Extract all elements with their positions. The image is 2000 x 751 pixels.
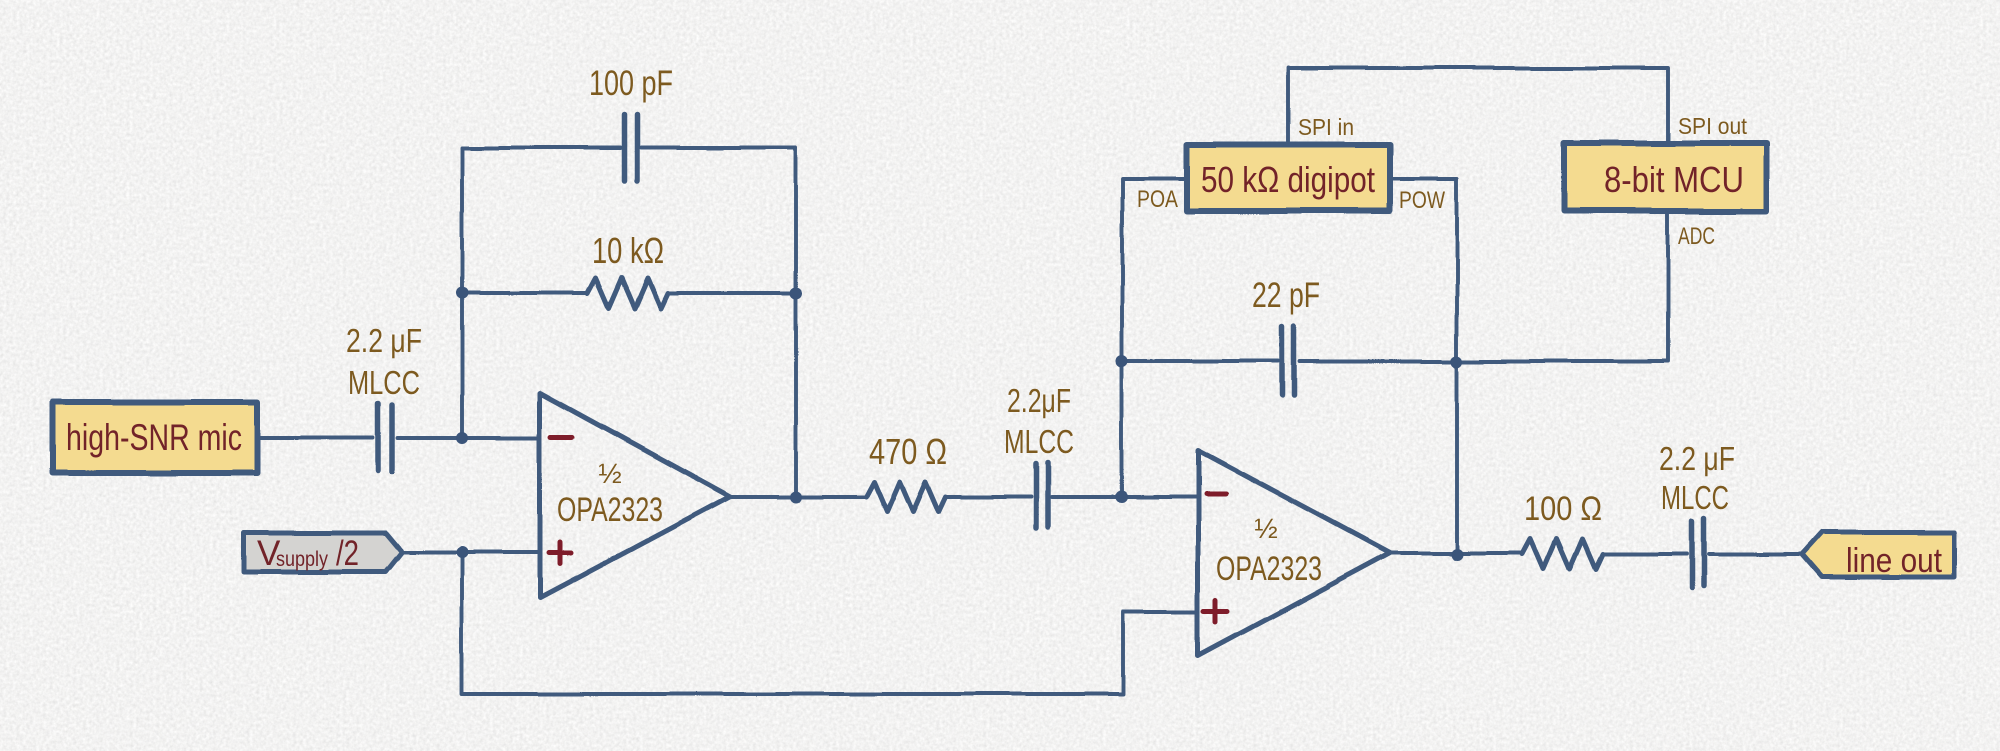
- svg-text:OPA2323: OPA2323: [1216, 550, 1322, 588]
- svg-text:/2: /2: [336, 534, 359, 573]
- svg-text:100 pF: 100 pF: [589, 64, 673, 103]
- svg-text:high-SNR mic: high-SNR mic: [66, 417, 242, 458]
- svg-text:MLCC: MLCC: [348, 364, 420, 401]
- svg-text:22 pF: 22 pF: [1252, 276, 1320, 315]
- svg-text:SPI in: SPI in: [1298, 114, 1354, 140]
- svg-text:SPI out: SPI out: [1678, 113, 1748, 139]
- svg-text:2.2 μF: 2.2 μF: [346, 322, 422, 359]
- svg-text:POW: POW: [1399, 187, 1445, 214]
- svg-text:2.2 μF: 2.2 μF: [1659, 440, 1735, 477]
- svg-text:POA: POA: [1137, 186, 1178, 213]
- svg-text:470 Ω: 470 Ω: [869, 431, 947, 472]
- svg-text:line out: line out: [1846, 542, 1942, 580]
- svg-text:MLCC: MLCC: [1661, 479, 1729, 516]
- svg-text:100 Ω: 100 Ω: [1524, 490, 1602, 528]
- svg-text:ADC: ADC: [1678, 223, 1715, 250]
- svg-text:50 kΩ digipot: 50 kΩ digipot: [1201, 159, 1375, 200]
- svg-text:2.2μF: 2.2μF: [1007, 382, 1071, 419]
- svg-text:½: ½: [1254, 513, 1277, 544]
- svg-text:supply: supply: [276, 548, 328, 571]
- svg-text:MLCC: MLCC: [1004, 423, 1074, 460]
- svg-text:½: ½: [598, 458, 621, 489]
- svg-text:OPA2323: OPA2323: [557, 491, 663, 529]
- svg-text:10 kΩ: 10 kΩ: [592, 230, 664, 271]
- svg-text:8-bit MCU: 8-bit MCU: [1604, 159, 1744, 200]
